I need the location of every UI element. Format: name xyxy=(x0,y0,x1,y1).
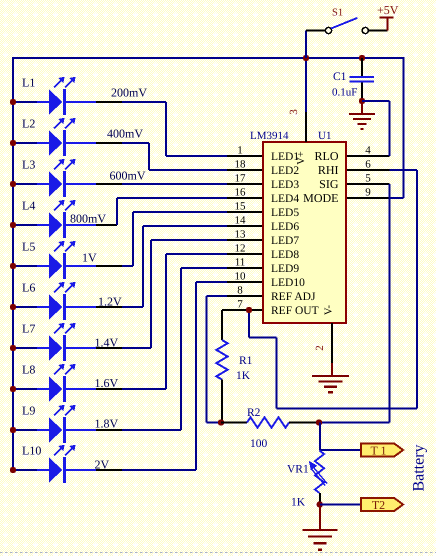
junction dot L1 anode xyxy=(10,99,16,105)
svg-text:4: 4 xyxy=(365,145,371,157)
junction dot L9 anode xyxy=(10,427,16,433)
wire V+ top rail xyxy=(13,57,404,59)
svg-text:14: 14 xyxy=(235,215,247,227)
resistor R2 xyxy=(221,417,319,427)
junction dot REF OUT xyxy=(246,307,252,313)
pin 13 stub xyxy=(227,239,263,241)
op-amp U1 LM3914 body xyxy=(263,142,346,323)
wire LED4 cathode net xyxy=(96,224,117,226)
pin 10 stub xyxy=(227,281,263,283)
svg-text:200mV: 200mV xyxy=(111,86,147,100)
svg-text:LED9: LED9 xyxy=(271,263,299,275)
svg-text:1V: 1V xyxy=(82,251,97,265)
svg-text:12: 12 xyxy=(235,243,246,255)
wire LED1 cathode net xyxy=(96,101,122,103)
svg-text:LED2: LED2 xyxy=(271,165,299,177)
junction dot C1 top xyxy=(359,55,365,61)
svg-text:L10: L10 xyxy=(22,444,41,458)
pin 15 stub xyxy=(227,211,263,213)
LED L2 xyxy=(13,118,96,156)
svg-text:400mV: 400mV xyxy=(107,127,143,141)
pin 16 stub xyxy=(227,197,263,199)
svg-text:LED5: LED5 xyxy=(271,207,299,219)
svg-text:SIG: SIG xyxy=(319,177,339,191)
pin 17 stub xyxy=(227,183,263,185)
svg-text:7: 7 xyxy=(237,299,243,311)
wire VR1 bottom xyxy=(319,493,321,505)
LED L1 xyxy=(13,77,96,115)
junction dot L7 anode xyxy=(10,345,16,351)
junction dot R2 left xyxy=(218,419,224,425)
pin 5 stub xyxy=(346,183,390,185)
svg-text:R1: R1 xyxy=(239,355,253,367)
potentiometer VR1 xyxy=(309,451,327,494)
svg-text:T 1: T 1 xyxy=(370,443,386,457)
wire left anode rail xyxy=(12,57,14,470)
svg-text:REF OUT: REF OUT xyxy=(271,305,319,317)
ground under C1 xyxy=(349,101,375,129)
svg-text:V-: V- xyxy=(324,304,335,315)
svg-text:LED10: LED10 xyxy=(271,277,305,289)
wire LED5 cathode net xyxy=(96,265,122,267)
svg-text:U1: U1 xyxy=(318,130,331,142)
svg-text:MODE: MODE xyxy=(303,191,338,205)
wire RLO to ground node xyxy=(362,100,390,102)
svg-text:8: 8 xyxy=(237,285,243,297)
ground pin 2 xyxy=(312,363,349,392)
svg-text:2V: 2V xyxy=(95,458,110,472)
wire MODE to V+ xyxy=(403,57,405,198)
svg-text:16: 16 xyxy=(235,187,247,199)
svg-text:RLO: RLO xyxy=(315,149,339,163)
svg-text:L3: L3 xyxy=(22,158,35,172)
svg-text:L2: L2 xyxy=(22,117,35,131)
svg-text:10: 10 xyxy=(235,271,247,283)
svg-text:18: 18 xyxy=(235,159,247,171)
junction dot L2 anode xyxy=(10,140,16,146)
wire RHI to REF OUT xyxy=(390,169,418,171)
svg-text:LED7: LED7 xyxy=(271,235,299,247)
connector T2 xyxy=(361,498,403,511)
sheet border dashed line xyxy=(0,552,436,554)
junction dot L4 anode xyxy=(10,222,16,228)
svg-text:600mV: 600mV xyxy=(110,169,146,183)
svg-text:9: 9 xyxy=(365,187,371,199)
pin 18 stub xyxy=(227,169,263,171)
svg-text:15: 15 xyxy=(235,201,247,213)
svg-text:REF ADJ: REF ADJ xyxy=(271,291,316,303)
pin 14 stub xyxy=(227,225,263,227)
wire LED10 cathode net xyxy=(96,469,122,471)
svg-text:800mV: 800mV xyxy=(70,212,106,226)
pin 2 wire xyxy=(331,323,333,363)
svg-text:6: 6 xyxy=(365,159,371,171)
junction dot L8 anode xyxy=(10,386,16,392)
svg-text:LED3: LED3 xyxy=(271,179,299,191)
svg-text:T2: T2 xyxy=(372,498,385,512)
svg-text:2: 2 xyxy=(314,345,326,351)
wire T1 xyxy=(320,449,361,451)
svg-text:L9: L9 xyxy=(22,404,35,418)
power +5V xyxy=(377,3,399,30)
wire LED3 cathode net xyxy=(96,183,122,185)
svg-text:R2: R2 xyxy=(247,407,261,419)
LED L5 xyxy=(13,241,96,279)
wire C1 top xyxy=(361,58,363,76)
junction dot T2 xyxy=(317,501,323,507)
wire SIG to battery node xyxy=(389,184,391,423)
svg-text:L5: L5 xyxy=(22,240,35,254)
LED L7 xyxy=(13,323,96,361)
wire T2 xyxy=(320,504,361,506)
svg-text:RHI: RHI xyxy=(318,163,339,177)
wire LED6 cathode net xyxy=(96,306,122,308)
LED L3 xyxy=(13,159,96,197)
svg-text:1.2V: 1.2V xyxy=(98,295,122,309)
capacitor C1 xyxy=(350,77,375,82)
svg-text:LED6: LED6 xyxy=(271,221,299,233)
svg-text:5: 5 xyxy=(365,173,371,185)
junction dot L5 anode xyxy=(10,263,16,269)
resistor R1 xyxy=(216,310,227,423)
junction dot pin3/S1 xyxy=(303,55,309,61)
svg-text:L1: L1 xyxy=(22,76,35,90)
pin 6 stub xyxy=(346,169,390,171)
svg-text:L7: L7 xyxy=(22,322,35,336)
wire LED9 cathode net xyxy=(96,429,122,431)
switch S1 xyxy=(306,18,387,58)
pin 8 stub xyxy=(227,295,263,297)
connector T1 xyxy=(361,444,403,457)
wire LED7 cathode net xyxy=(96,347,122,349)
pin 7 extension xyxy=(222,309,227,311)
junction dot R2 right xyxy=(316,419,322,425)
ground bottom xyxy=(302,529,337,531)
junction dot L3 anode xyxy=(10,181,16,187)
svg-text:100: 100 xyxy=(250,438,268,450)
svg-text:LED4: LED4 xyxy=(271,193,299,205)
svg-text:L6: L6 xyxy=(22,281,35,295)
wire C1 bottom xyxy=(361,83,363,102)
LED L10 xyxy=(13,445,96,483)
svg-text:V+: V+ xyxy=(296,151,307,165)
svg-text:S1: S1 xyxy=(332,8,343,19)
wire LED2 cathode net xyxy=(96,142,122,144)
junction dot L6 anode xyxy=(10,304,16,310)
svg-text:0.1uF: 0.1uF xyxy=(332,87,357,99)
svg-text:11: 11 xyxy=(235,257,246,269)
svg-text:L8: L8 xyxy=(22,363,35,377)
wire battery node xyxy=(319,423,321,451)
svg-text:LED8: LED8 xyxy=(271,249,299,261)
pin 7 stub xyxy=(222,309,263,311)
pin 12 stub xyxy=(227,253,263,255)
svg-text:VR1: VR1 xyxy=(287,464,309,476)
svg-text:1K: 1K xyxy=(291,497,306,509)
svg-text:Battery: Battery xyxy=(411,444,428,491)
svg-text:1K: 1K xyxy=(236,370,251,382)
LED L4 xyxy=(13,200,96,238)
svg-text:1: 1 xyxy=(237,145,243,157)
junction dot L10 anode xyxy=(10,467,16,473)
LED L6 xyxy=(13,282,96,320)
svg-text:C1: C1 xyxy=(333,71,347,83)
pin 1 stub xyxy=(227,155,263,157)
svg-text:1.6V: 1.6V xyxy=(95,376,119,390)
svg-text:17: 17 xyxy=(235,173,247,185)
svg-text:LM3914: LM3914 xyxy=(250,130,289,142)
LED L9 xyxy=(13,405,96,443)
wire REF ADJ down xyxy=(207,295,228,297)
LED L8 xyxy=(13,364,96,402)
svg-text:1.4V: 1.4V xyxy=(95,336,119,350)
svg-text:+5V: +5V xyxy=(377,3,399,17)
wire LED8 cathode net xyxy=(96,388,122,390)
pin 3 wire xyxy=(305,58,307,112)
svg-text:1.8V: 1.8V xyxy=(95,417,119,431)
pin 4 stub xyxy=(346,155,390,157)
junction dot C1 bottom xyxy=(359,98,365,104)
svg-text:L4: L4 xyxy=(22,199,35,213)
pin 9 stub xyxy=(346,197,390,199)
svg-text:13: 13 xyxy=(235,229,247,241)
pin 11 stub xyxy=(227,267,263,269)
svg-text:3: 3 xyxy=(288,109,300,115)
